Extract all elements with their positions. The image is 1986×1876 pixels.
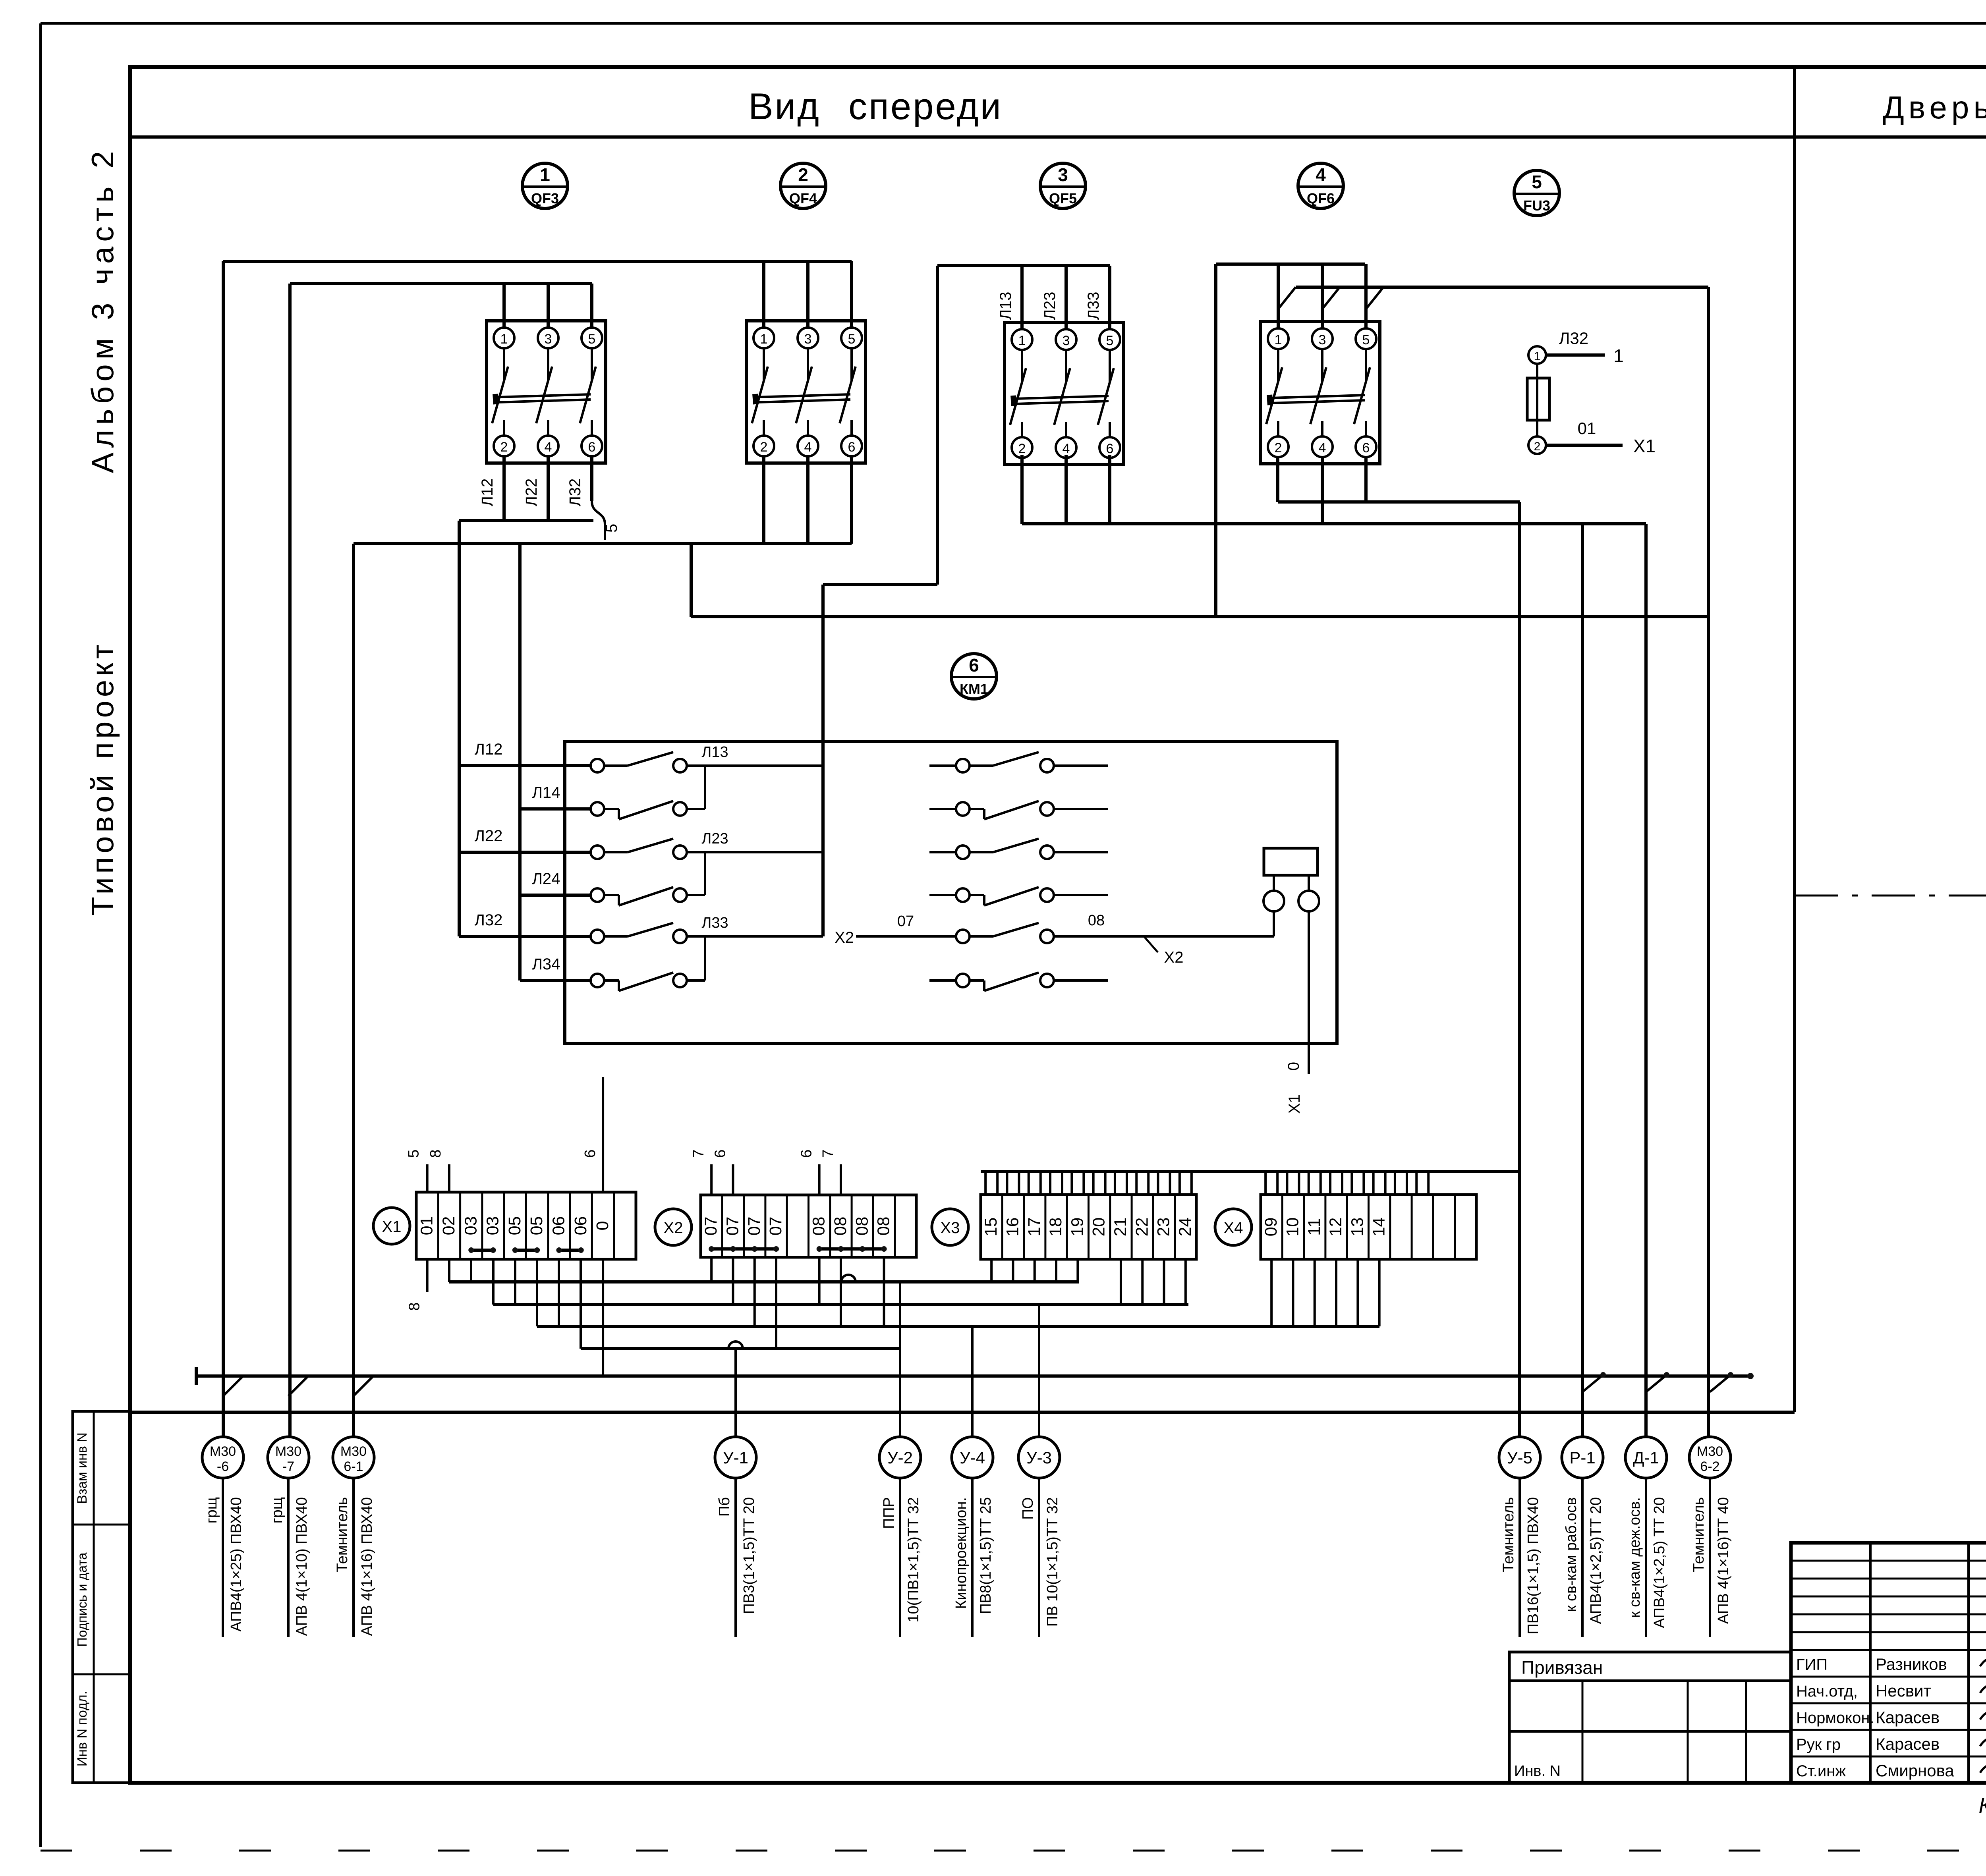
svg-text:Нач.отд,: Нач.отд, <box>1796 1683 1858 1700</box>
fuse FU3 terminal 1 <box>1528 346 1546 364</box>
wire: KM1 input Л24 <box>520 894 591 897</box>
fuse FU3 terminal 2 <box>1528 436 1546 454</box>
svg-text:21: 21 <box>1111 1218 1130 1237</box>
svg-text:23: 23 <box>1154 1218 1173 1237</box>
svg-text:16: 16 <box>1003 1218 1022 1237</box>
cable У-3 circle <box>1018 1437 1060 1478</box>
svg-text:07: 07 <box>745 1217 764 1236</box>
svg-text:Л22: Л22 <box>523 479 540 507</box>
svg-text:6: 6 <box>1106 441 1114 456</box>
svg-text:У-2: У-2 <box>887 1448 913 1467</box>
svg-text:2: 2 <box>1275 440 1282 455</box>
svg-text:X2: X2 <box>835 929 854 946</box>
svg-text:Л22: Л22 <box>475 827 503 845</box>
circuit breaker QF3 <box>487 321 606 463</box>
svg-text:Л32: Л32 <box>566 479 584 507</box>
svg-text:08: 08 <box>852 1217 871 1236</box>
svg-text:2: 2 <box>798 164 808 185</box>
wire: vertical QF6 area down to dimmer tie line <box>1214 264 1217 617</box>
svg-text:АПВ 4(1×10) ПВХ40: АПВ 4(1×10) ПВХ40 <box>294 1497 310 1636</box>
svg-text:ПВ8(1×1,5)ТТ 25: ПВ8(1×1,5)ТТ 25 <box>978 1497 994 1614</box>
svg-text:Л34: Л34 <box>532 955 560 973</box>
terminal block X4 designator circle <box>1215 1209 1252 1245</box>
svg-text:X1: X1 <box>1286 1094 1303 1114</box>
svg-text:ПВ16(1×1,5) ПВХ40: ПВ16(1×1,5) ПВХ40 <box>1525 1497 1542 1635</box>
svg-text:-6: -6 <box>217 1459 229 1474</box>
svg-text:4: 4 <box>804 440 812 455</box>
wire: KM1 input Л32 <box>459 935 591 938</box>
svg-text:1: 1 <box>1018 333 1026 348</box>
svg-text:X3: X3 <box>941 1219 960 1237</box>
svg-text:Взам инв N: Взам инв N <box>75 1432 90 1504</box>
cable У-2 circle <box>879 1437 921 1478</box>
X2 jumper links <box>711 1247 733 1251</box>
wire: KM1 input Л22 <box>459 851 591 854</box>
svg-text:2: 2 <box>1534 440 1541 453</box>
KM1 right contact row 3 <box>956 845 970 859</box>
svg-text:Нормокон.: Нормокон. <box>1796 1709 1874 1727</box>
cable У-3 stub and labels <box>1038 1478 1040 1637</box>
KM1 left contact row 5 <box>591 930 604 943</box>
svg-text:АПВ4(1×2,5)ТТ 20: АПВ4(1×2,5)ТТ 20 <box>1588 1497 1604 1624</box>
svg-text:08: 08 <box>1088 912 1105 929</box>
svg-text:11: 11 <box>1305 1218 1324 1236</box>
svg-text:М30: М30 <box>275 1444 301 1459</box>
wire: QF4 outputs to dimmer horizontal <box>354 542 852 545</box>
svg-text:3: 3 <box>545 332 552 347</box>
svg-text:АПВ4(1×2,5) ТТ 20: АПВ4(1×2,5) ТТ 20 <box>1651 1497 1668 1628</box>
svg-text:0: 0 <box>593 1221 612 1231</box>
svg-text:6: 6 <box>848 440 856 455</box>
svg-text:06: 06 <box>549 1216 568 1235</box>
svg-text:5: 5 <box>848 332 856 347</box>
KM1 left contact row 3 <box>591 845 604 859</box>
svg-text:Инв N подл.: Инв N подл. <box>75 1691 90 1766</box>
harness level 1 <box>449 1280 1079 1283</box>
svg-text:Подпись и дата: Подпись и дата <box>75 1552 89 1647</box>
svg-text:Ст.инж: Ст.инж <box>1796 1762 1846 1780</box>
terminal block X2 cells <box>701 1195 916 1257</box>
circuit breaker QF6 <box>1261 322 1380 464</box>
svg-text:3: 3 <box>804 332 812 347</box>
wire drops into QF4 terminals <box>762 261 765 328</box>
svg-text:09: 09 <box>1262 1218 1281 1237</box>
position circle 3 QF5 <box>1040 163 1086 208</box>
svg-text:22: 22 <box>1132 1218 1151 1237</box>
svg-text:17: 17 <box>1025 1218 1044 1237</box>
svg-text:01: 01 <box>417 1216 437 1235</box>
svg-text:3: 3 <box>1058 164 1068 185</box>
wire У-1 vertical to level 4 <box>734 1349 737 1437</box>
svg-text:Л12: Л12 <box>479 479 496 507</box>
circuit breaker QF5 <box>1005 322 1124 465</box>
svg-text:07: 07 <box>701 1217 721 1236</box>
cable М30/6-1 circle <box>333 1437 374 1478</box>
svg-text:Л23: Л23 <box>1041 292 1059 320</box>
svg-text:грщ: грщ <box>269 1497 286 1523</box>
svg-text:1: 1 <box>760 332 768 347</box>
svg-text:Л32: Л32 <box>475 911 503 929</box>
svg-text:05: 05 <box>527 1216 546 1235</box>
svg-text:3: 3 <box>1063 333 1070 348</box>
svg-text:24: 24 <box>1176 1218 1195 1237</box>
svg-text:QF3: QF3 <box>531 190 559 207</box>
svg-text:8: 8 <box>406 1302 423 1310</box>
svg-text:Темнитель: Темнитель <box>1690 1497 1707 1572</box>
svg-text:Д-1: Д-1 <box>1633 1448 1659 1467</box>
svg-text:1: 1 <box>1275 332 1282 347</box>
wire: feeder M30-7 vertical <box>288 284 292 1437</box>
position circle 4 QF6 <box>1298 163 1343 208</box>
svg-text:к св-кам раб.осв: к св-кам раб.осв <box>1563 1497 1580 1612</box>
svg-text:10(ПВ1×1,5)ТТ 32: 10(ПВ1×1,5)ТТ 32 <box>905 1497 922 1623</box>
KM1 right contact row 2 <box>956 802 970 816</box>
svg-text:ПВ3(1×1,5)ТТ 20: ПВ3(1×1,5)ТТ 20 <box>741 1497 757 1614</box>
svg-text:08: 08 <box>831 1217 850 1236</box>
svg-text:08: 08 <box>809 1217 829 1236</box>
svg-text:Рук гр: Рук гр <box>1796 1736 1841 1753</box>
KM1 coil <box>1264 848 1318 875</box>
svg-text:4: 4 <box>1319 440 1326 455</box>
field divider (front view / door view) <box>1793 67 1796 1412</box>
svg-text:Л33: Л33 <box>701 915 728 931</box>
svg-text:ГИП: ГИП <box>1796 1656 1828 1673</box>
wire: QF3 output drops Л12 Л22 Л32 <box>502 456 506 521</box>
wire drops into QF3 terminals <box>502 284 506 328</box>
terminal block X2 designator circle <box>655 1209 692 1245</box>
wire: KM1 input Л14 <box>520 807 591 811</box>
svg-text:6: 6 <box>712 1149 728 1158</box>
svg-text:07: 07 <box>723 1217 742 1236</box>
svg-text:2: 2 <box>1018 441 1026 456</box>
cable У-2 stub and labels <box>899 1478 901 1637</box>
door area dash-dot bottom line <box>1795 895 1986 897</box>
svg-text:5: 5 <box>406 1149 422 1158</box>
wire 01 from FU3-2 to X1 <box>1546 444 1623 447</box>
svg-text:У-4: У-4 <box>960 1448 985 1467</box>
svg-text:Л23: Л23 <box>701 830 728 847</box>
wire: feeder M30-7 horizontal to QF3 <box>290 282 592 285</box>
cable Д-1 stub and labels <box>1645 1478 1647 1637</box>
svg-text:0: 0 <box>1285 1062 1302 1071</box>
wire: QF6 hook line to M30 6-2 feeder <box>1296 286 1708 289</box>
svg-text:Л13: Л13 <box>997 292 1014 320</box>
X4 bottom drops <box>1270 1259 1273 1326</box>
cable М30/-6 stub and labels <box>222 1478 224 1637</box>
svg-text:АПВ4(1×25) ПВХ40: АПВ4(1×25) ПВХ40 <box>228 1497 245 1632</box>
fuse FU3 body <box>1536 364 1538 436</box>
svg-text:15: 15 <box>981 1218 1001 1237</box>
svg-text:5: 5 <box>1362 332 1370 347</box>
KM1 left contact row 4 <box>591 888 604 902</box>
svg-text:Смирнова: Смирнова <box>1876 1761 1954 1780</box>
svg-text:QF4: QF4 <box>789 190 817 207</box>
svg-text:Несвит: Несвит <box>1876 1681 1931 1700</box>
tap slashes on bus 1 <box>223 1376 243 1396</box>
svg-text:Л33: Л33 <box>1085 292 1102 320</box>
svg-text:X1: X1 <box>382 1218 402 1235</box>
svg-text:07: 07 <box>766 1217 785 1236</box>
svg-text:АПВ 4(1×16)ТТ 40: АПВ 4(1×16)ТТ 40 <box>1715 1497 1732 1624</box>
svg-text:7: 7 <box>690 1149 707 1158</box>
position circle 5 FU3 <box>1514 170 1559 216</box>
svg-text:6: 6 <box>969 655 979 676</box>
svg-text:1: 1 <box>1613 345 1624 366</box>
svg-text:Пб: Пб <box>716 1497 733 1517</box>
svg-text:Привязан: Привязан <box>1521 1657 1603 1678</box>
svg-text:4: 4 <box>545 440 552 455</box>
svg-text:М30: М30 <box>210 1444 236 1459</box>
wire: feeder M30-6 vertical <box>222 261 225 1437</box>
svg-text:Р-1: Р-1 <box>1569 1448 1595 1467</box>
svg-text:У-3: У-3 <box>1026 1448 1052 1467</box>
KM1 right contact row 6 <box>956 974 970 987</box>
wire: QF5 feeder from KM1 collector <box>937 264 1110 267</box>
svg-text:У-5: У-5 <box>1507 1448 1532 1467</box>
QF5/QF6 output horizontals <box>1278 500 1520 504</box>
cable М30/6-1 stub and labels <box>352 1478 355 1637</box>
KM1 right contact row 5 <box>956 930 970 943</box>
cable У-5 stub and labels <box>1518 1478 1521 1637</box>
cable У-5 circle <box>1499 1437 1540 1478</box>
wire: vertical to KM1 odd inputs <box>458 521 461 936</box>
svg-text:ППР: ППР <box>881 1497 897 1529</box>
KM1 left contact row 1 <box>591 759 604 772</box>
X1 jumper links <box>471 1249 493 1252</box>
svg-text:6: 6 <box>582 1149 599 1158</box>
svg-text:к св-кам деж.осв.: к св-кам деж.осв. <box>1627 1497 1643 1618</box>
svg-text:06: 06 <box>571 1216 590 1235</box>
cable Р-1 circle <box>1562 1437 1603 1478</box>
X1 cell 01 wire down with label 8 <box>426 1259 429 1292</box>
KM1 coil terminal b <box>1298 891 1319 911</box>
signatures <box>1980 1658 1986 1669</box>
cable М30/-7 circle <box>268 1437 309 1478</box>
bus line 2 <box>130 1411 1795 1414</box>
left stamp column boxes <box>73 1411 130 1783</box>
terminal block X1 cells <box>416 1192 636 1259</box>
svg-text:5: 5 <box>603 524 620 533</box>
svg-text:ПВ 10(1×1,5)ТТ 32: ПВ 10(1×1,5)ТТ 32 <box>1044 1497 1061 1627</box>
position circle 2 QF4 <box>780 163 826 208</box>
harness level 4 <box>581 1347 900 1350</box>
wire У-2 vertical to level 1 <box>899 1282 901 1437</box>
svg-text:Дверь (вид со стороны монтажа): Дверь (вид со стороны монтажа) <box>1883 90 1986 125</box>
X1 top wires 5 and 8 <box>426 1164 429 1192</box>
svg-text:6: 6 <box>798 1149 815 1158</box>
svg-text:10: 10 <box>1283 1218 1302 1237</box>
wire У-3 vertical to level 2 <box>1038 1305 1040 1437</box>
svg-text:X4: X4 <box>1224 1219 1243 1237</box>
svg-text:4: 4 <box>1063 441 1070 456</box>
wire Д-1 vertical <box>1644 524 1648 1437</box>
svg-text:Л12: Л12 <box>475 741 503 758</box>
svg-text:12: 12 <box>1326 1218 1345 1237</box>
cable Р-1 stub and labels <box>1581 1478 1584 1637</box>
svg-text:Копировал: Жукова: Копировал: Жукова <box>1978 1794 1986 1818</box>
svg-text:Л24: Л24 <box>532 870 560 888</box>
wire Л32 from FU3-1 to node 1 <box>1546 353 1605 357</box>
cable М30/-6 circle <box>202 1437 243 1478</box>
svg-text:ПО: ПО <box>1020 1497 1036 1520</box>
harness level 2 <box>493 1303 1188 1306</box>
svg-text:6-1: 6-1 <box>344 1459 363 1474</box>
svg-text:01: 01 <box>1578 419 1596 438</box>
svg-text:КМ1: КМ1 <box>960 681 988 697</box>
svg-text:1: 1 <box>1534 350 1541 363</box>
svg-text:1: 1 <box>500 332 508 347</box>
svg-text:Типовой проект: Типовой проект <box>85 641 120 916</box>
svg-text:Карасев: Карасев <box>1876 1735 1940 1753</box>
svg-text:Альбом 3 часть 2: Альбом 3 часть 2 <box>85 146 120 473</box>
svg-text:6: 6 <box>1362 440 1370 455</box>
position circle 6 КМ1 <box>951 654 997 699</box>
wire: QF6 feeder horizontals <box>1216 262 1365 266</box>
svg-text:19: 19 <box>1068 1218 1087 1237</box>
cable Д-1 circle <box>1625 1437 1667 1478</box>
cable У-4 stub and labels <box>971 1478 974 1637</box>
title block grid <box>1791 1543 1986 1783</box>
cable М30/-7 stub and labels <box>287 1478 290 1637</box>
cable У-1 stub and labels <box>734 1478 737 1637</box>
X1 cell 0 wire up <box>602 1077 604 1192</box>
svg-text:1: 1 <box>540 164 550 185</box>
KM1 left contact row 6 <box>591 974 604 987</box>
X2 top wires 7 6 / 6 7 <box>710 1164 713 1195</box>
svg-text:03: 03 <box>461 1216 480 1235</box>
circuit breaker QF4 <box>746 321 865 463</box>
KM1 left contact row 2 <box>591 802 604 816</box>
svg-text:Карасев: Карасев <box>1876 1708 1940 1727</box>
svg-text:QF5: QF5 <box>1049 190 1077 207</box>
harness level 3 <box>537 1325 1379 1328</box>
svg-text:6: 6 <box>588 440 596 455</box>
svg-text:5: 5 <box>588 332 596 347</box>
svg-text:07: 07 <box>897 913 914 930</box>
svg-text:X2: X2 <box>664 1219 683 1237</box>
cable У-4 circle <box>952 1437 993 1478</box>
svg-text:3: 3 <box>1319 332 1326 347</box>
terminal block X4 cells <box>1261 1195 1476 1259</box>
svg-text:20: 20 <box>1090 1218 1109 1237</box>
left attachment box <box>1509 1652 1791 1783</box>
svg-text:5: 5 <box>1106 333 1114 348</box>
svg-text:08: 08 <box>874 1217 893 1236</box>
wire: dimmer feeder M30 6-1 vertical <box>352 544 355 1437</box>
wire: vertical to cable M30 6-2 <box>1707 287 1710 1437</box>
X1 bottom drops <box>448 1259 450 1282</box>
cable М30/6-2 circle <box>1689 1437 1731 1478</box>
terminal block X1 designator circle <box>373 1208 410 1244</box>
svg-text:FU3: FU3 <box>1523 197 1550 214</box>
sheet outer border <box>41 22 1986 25</box>
position circle 1 QF3 <box>522 163 568 208</box>
svg-text:7: 7 <box>820 1149 837 1158</box>
svg-text:Инв. N: Инв. N <box>1514 1763 1561 1779</box>
svg-text:Кинопроекцион.: Кинопроекцион. <box>953 1497 970 1609</box>
svg-text:Л14: Л14 <box>532 784 560 801</box>
svg-text:спереди: спереди <box>848 85 1003 127</box>
wire Р-1 vertical <box>1581 524 1584 1437</box>
svg-text:14: 14 <box>1370 1218 1389 1237</box>
X2 bottom drops <box>710 1257 713 1282</box>
svg-text:АПВ 4(1×16) ПВХ40: АПВ 4(1×16) ПВХ40 <box>359 1497 375 1636</box>
wire: KM1 input Л12 <box>459 764 591 767</box>
svg-text:Л32: Л32 <box>1559 329 1588 347</box>
svg-text:13: 13 <box>1348 1218 1367 1237</box>
contactor KM1 enclosure <box>565 741 1337 1044</box>
svg-text:Разников: Разников <box>1876 1655 1947 1673</box>
svg-text:8: 8 <box>427 1149 444 1158</box>
svg-text:Темнитель: Темнитель <box>334 1497 351 1572</box>
X3 X4 top bus <box>981 1170 1520 1173</box>
X3 bottom drops <box>990 1259 993 1282</box>
wire: dimmer tie line horizontal <box>691 615 1708 618</box>
svg-text:У-1: У-1 <box>723 1448 748 1467</box>
svg-text:X1: X1 <box>1633 436 1656 456</box>
svg-text:М30: М30 <box>1697 1444 1723 1459</box>
cable М30/6-2 stub and labels <box>1709 1478 1711 1637</box>
svg-text:Вид: Вид <box>748 85 821 127</box>
wire У-4 vertical to level 3 <box>971 1326 974 1437</box>
terminal block X3 cells <box>981 1195 1196 1259</box>
wire: QF3 output collector horizontal <box>459 519 593 522</box>
title band line <box>130 135 1986 139</box>
wire: S-jog wire 5 from QF3 terminal 6 <box>592 501 605 540</box>
svg-text:М30: М30 <box>340 1444 367 1459</box>
wire: KM1 input Л34 <box>520 979 591 982</box>
svg-text:03: 03 <box>483 1216 502 1235</box>
bus line 1 with end tick <box>196 1374 1750 1378</box>
svg-text:-7: -7 <box>282 1459 294 1474</box>
svg-text:05: 05 <box>505 1216 524 1235</box>
svg-text:2: 2 <box>760 440 768 455</box>
KM1 right contact row 4 <box>956 888 970 902</box>
svg-text:грщ: грщ <box>203 1497 220 1523</box>
wire У-5 vertical from QF6 line <box>1518 502 1521 1437</box>
cable У-1 circle <box>715 1437 756 1478</box>
terminal block X3 designator circle <box>932 1209 968 1245</box>
svg-text:2: 2 <box>500 440 508 455</box>
svg-text:18: 18 <box>1046 1218 1065 1237</box>
wire from coil to X1-0 <box>1308 911 1310 1074</box>
svg-text:QF6: QF6 <box>1307 190 1335 207</box>
svg-text:4: 4 <box>1316 164 1326 185</box>
KM1 coil terminal a <box>1263 891 1284 911</box>
svg-text:02: 02 <box>439 1216 458 1235</box>
svg-text:Темнитель: Темнитель <box>1500 1497 1517 1572</box>
svg-text:X2: X2 <box>1164 949 1184 966</box>
svg-text:6-2: 6-2 <box>1700 1459 1719 1474</box>
wire: feeder M30-6 horizontal to QF4 <box>223 260 852 263</box>
KM1 right contact row 1 <box>956 759 970 772</box>
svg-text:Л13: Л13 <box>701 744 728 760</box>
svg-text:5: 5 <box>1532 172 1542 192</box>
wire: vertical to KM1 even inputs <box>518 544 522 980</box>
